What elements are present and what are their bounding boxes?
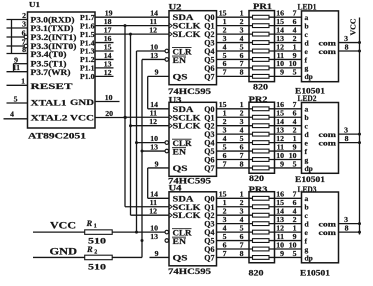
svg-text:QS: QS	[173, 164, 189, 173]
LED2 segment pin name e	[305, 138, 309, 147]
resistor PR3 element 4	[253, 222, 270, 226]
wire GND through R2 to EN bus	[33, 256, 142, 258]
svg-text:1: 1	[21, 77, 25, 86]
resistor PR1 element 2	[253, 24, 270, 28]
svg-text:17: 17	[104, 25, 112, 34]
svg-text:9: 9	[155, 68, 159, 77]
LED3 pin number 7	[293, 190, 297, 199]
LED1 segment pin name c	[305, 30, 309, 39]
svg-text:8: 8	[240, 68, 244, 77]
U1 pin name P3.1(TXD)	[31, 23, 74, 33]
resistor PR1 element 6	[253, 58, 270, 62]
display LED2 part number label E10501	[295, 175, 325, 184]
LED2 segment pin name dp	[305, 164, 313, 173]
svg-text:8: 8	[345, 223, 349, 232]
wire U3 QS to U4 SDA	[148, 168, 169, 198]
PR1 left pin number 7	[240, 59, 244, 68]
svg-text:12: 12	[104, 68, 112, 77]
IC U4 part number label 74HC595	[168, 266, 211, 276]
svg-text:820: 820	[253, 81, 268, 91]
wire SLCK bus elbow into U4	[131, 214, 170, 216]
IC U2 part number label 74HC595	[168, 86, 211, 96]
wire U3 Q7 to PR2 to LED2	[217, 167, 302, 169]
resistor network PR2 value label 820	[249, 173, 264, 183]
svg-text:U4: U4	[169, 183, 182, 192]
U2 pin SCLK name with clock wedge	[169, 22, 201, 31]
display LED3 part number label E10501	[300, 268, 330, 277]
PR3 right pin number 9	[280, 249, 284, 258]
svg-text:8: 8	[240, 159, 244, 168]
LED3 segment pin name dp	[305, 253, 313, 262]
U3 output Q7 name	[204, 164, 214, 173]
U1 pin name P3.2(INT1)	[31, 32, 77, 42]
U2 output Q7 name	[204, 72, 214, 81]
wire U2 QS stub to chain	[148, 75, 169, 77]
PR3 left pin number 8	[240, 249, 244, 258]
U3 pin SCLK name with clock wedge	[169, 113, 201, 122]
svg-text:10: 10	[105, 93, 113, 102]
U2 Q1 pin number 1	[223, 17, 227, 26]
U1 pin 10 GND stub wire	[95, 93, 120, 102]
U1 pin name P1.0	[80, 72, 95, 81]
LED1 segment pin name dp	[305, 72, 313, 81]
resistor PR2 element 1	[253, 107, 270, 111]
U1 pin 14 stub wire P1.2	[95, 51, 114, 60]
wire EN bus vertical	[141, 59, 143, 257]
wire SCLK bus vertical	[124, 26, 126, 207]
node junction VCC pin20	[124, 116, 127, 119]
resistor R1 designator label	[86, 218, 97, 230]
LED2 pin number 5	[293, 159, 297, 168]
svg-text:U3: U3	[169, 96, 182, 105]
U1 pin 7 wire and number	[7, 38, 28, 48]
PR1 right pin number 9	[280, 68, 284, 77]
PR2 left pin number 5	[240, 134, 244, 143]
LED1 com pin name lower	[319, 47, 337, 56]
node junction P1.6 SCLK bus	[124, 24, 127, 27]
LED3 pin number 4	[293, 207, 297, 216]
U2 Q4 pin number 4	[223, 42, 227, 51]
PR2 left pin number 1	[240, 100, 244, 109]
LED3 segment pin name d	[305, 219, 310, 228]
power VCC rail label rotated	[350, 19, 358, 36]
svg-text:com: com	[319, 228, 337, 237]
U3 pin SDA name	[173, 105, 194, 114]
resistor PR2 element 5	[253, 141, 270, 145]
svg-text:PR1: PR1	[253, 2, 272, 11]
LED3 pin number 9	[293, 232, 297, 241]
svg-text:VCC: VCC	[350, 19, 358, 36]
PR3 right pin number 12	[276, 223, 284, 232]
PR1 left pin number 8	[240, 68, 244, 77]
svg-text:P3.7(WR): P3.7(WR)	[31, 67, 71, 77]
U1 pin name XTAL2	[31, 113, 68, 123]
PR3 left pin number 7	[240, 240, 244, 249]
display LED1 designator label	[298, 2, 317, 11]
U1 pin 13 stub wire P1.1	[95, 59, 114, 68]
svg-text:5: 5	[293, 68, 297, 77]
wire U2 Q3 to PR1 to LED1	[217, 42, 302, 44]
U4 Q7 pin number 7	[223, 249, 227, 258]
svg-text:1: 1	[94, 224, 97, 230]
LED1 pin number 10	[289, 59, 297, 68]
resistor PR1 element 8	[253, 74, 270, 78]
U2 pin number 11	[150, 17, 157, 26]
wire U3 Q6 to PR2 to LED2	[217, 159, 302, 161]
svg-text:R: R	[86, 244, 93, 254]
wire U4 Q7 to PR3 to LED3	[217, 256, 302, 258]
PR2 left pin number 6	[240, 142, 244, 151]
U3 pin number 10	[150, 134, 158, 143]
wire U4 Q0 to PR3 to LED3	[217, 197, 302, 199]
U4 output Q6 name	[204, 245, 214, 254]
U1 pin 18 wire P1.6 to U2 SCLK	[95, 17, 169, 26]
U1 pin 6 wire and number	[7, 29, 28, 39]
U1 pin name P1.3	[80, 47, 95, 56]
svg-text:4: 4	[10, 110, 14, 119]
wire U2 Q2 to PR1 to LED1	[217, 33, 302, 35]
U3 Q1 pin number 1	[223, 109, 227, 118]
wire U3 Q0 to PR2 to LED2	[217, 108, 302, 110]
U4 Q1 pin number 1	[223, 198, 227, 207]
wire vertical rail joining U1 pins 2,3,6,7,8	[11, 20, 13, 54]
U1 pin 1 wire and number	[7, 77, 28, 86]
U2 pin SDA name	[173, 13, 194, 22]
U1 pin name P3.4(T0)	[31, 49, 67, 59]
resistor PR3 element 8	[253, 256, 270, 260]
U1 pin name P1.6	[80, 21, 95, 30]
wire LED3 com pin 3 to VCC rail	[339, 215, 362, 225]
LED2 segment pin name b	[305, 113, 309, 122]
U4 pin number 9	[155, 249, 159, 258]
U3 pin number 11	[150, 109, 157, 118]
U3 output Q2 name	[204, 122, 214, 131]
U3 pin QS name	[173, 164, 189, 173]
U3 output Q6 name	[204, 156, 214, 165]
LED3 segment pin name c	[305, 211, 309, 220]
wire U4 Q4 to PR3 to LED3	[217, 231, 302, 233]
svg-text:E10501: E10501	[300, 268, 330, 277]
U2 Q2 pin number 2	[223, 25, 227, 34]
svg-text:8: 8	[345, 134, 349, 143]
svg-text:R: R	[86, 218, 93, 228]
U1 pin 2 wire and number	[7, 11, 28, 20]
U3 output Q1 name	[204, 113, 214, 122]
U3 Q3 pin number 3	[223, 125, 227, 134]
PR1 right pin number 10	[276, 59, 284, 68]
IC U2 74HC595 body	[169, 11, 217, 85]
U1 pin 16 stub wire P1.4	[95, 34, 114, 43]
LED1 pin number 6	[293, 17, 297, 26]
wire U2 Q0 to PR1 to LED1	[217, 16, 302, 18]
U2 pin 13 EN input bubble	[165, 58, 169, 62]
power VCC rail vertical	[359, 18, 361, 235]
U2 pin CLR name with overline	[172, 47, 192, 56]
svg-text:820: 820	[249, 173, 264, 183]
resistor PR1 element 4	[253, 41, 270, 45]
svg-text:LED1: LED1	[298, 2, 317, 11]
U4 Q2 pin number 2	[223, 207, 227, 216]
wire U2 Q1 to PR1 to LED1	[217, 25, 302, 27]
svg-text:E10501: E10501	[295, 175, 325, 184]
U1 pin name P1.1	[80, 64, 95, 73]
PR3 right pin number 16	[276, 190, 284, 199]
PR1 right pin number 12	[276, 42, 284, 51]
PR2 right pin number 12	[276, 134, 284, 143]
wire U2 Q4 to PR1 to LED1	[217, 50, 302, 52]
PR2 right pin number 13	[276, 125, 284, 134]
U1 pin name P1.4	[80, 38, 95, 47]
U3 output Q0 name	[204, 105, 214, 114]
svg-text:SLCK: SLCK	[173, 211, 202, 220]
PR2 right pin number 10	[276, 151, 284, 160]
U1 pin 12 stub wire P1.0	[95, 68, 114, 77]
U1 pin 20 VCC wire	[95, 109, 126, 118]
U3 pin number 9	[155, 159, 159, 168]
svg-text:VCC: VCC	[50, 221, 76, 231]
U1 pin 15 stub wire P1.3	[95, 42, 114, 51]
U4 output Q3 name	[204, 220, 214, 229]
PR3 left pin number 3	[240, 207, 244, 216]
svg-text:5: 5	[293, 159, 297, 168]
U1 pin name P1.2	[80, 55, 95, 64]
U4 pin number 14	[150, 190, 158, 199]
U3 pin EN name with overline	[172, 147, 186, 156]
wire LED2 com pin 8 to VCC rail	[339, 134, 362, 144]
node junction EN bus to U4 pin 13	[141, 239, 144, 242]
resistor PR3 element 5	[253, 230, 270, 234]
resistor PR2 element 7	[253, 158, 270, 162]
LED3 com pin name upper	[319, 219, 337, 228]
U2 Q3 pin number 3	[223, 34, 227, 43]
PR3 right pin number 14	[276, 207, 284, 216]
IC U3 74HC595 body	[169, 102, 217, 176]
U1 pin name XTAL1	[31, 98, 67, 108]
LED3 com pin name lower	[319, 228, 337, 237]
U1 pin 4 wire and number	[4, 110, 28, 119]
resistor network PR2 designator label	[249, 95, 268, 104]
U3 Q2 pin number 2	[223, 117, 227, 126]
svg-text:GND: GND	[70, 97, 94, 107]
U3 Q7 pin number 7	[223, 159, 227, 168]
svg-text:com: com	[319, 138, 337, 147]
PR2 left pin number 7	[240, 151, 244, 160]
svg-text:EN: EN	[173, 56, 187, 65]
LED2 segment pin name f	[305, 147, 308, 156]
U2 pin EN name with overline	[172, 56, 186, 65]
svg-text:QS: QS	[173, 72, 189, 81]
resistor R1 value label 510	[88, 236, 106, 246]
IC U4 74HC595 body	[169, 192, 217, 266]
resistor PR3 element 2	[253, 205, 270, 209]
U1 pin 17 wire P1.5 to U2 SLCK	[95, 25, 169, 34]
svg-text:9: 9	[280, 159, 284, 168]
LED3 segment pin name b	[305, 203, 309, 212]
resistor PR2 element 4	[253, 132, 270, 136]
wire U3 QS stub to chain	[148, 167, 169, 169]
svg-text:13: 13	[150, 51, 158, 60]
wire U4 Q6 to PR3 to LED3	[217, 248, 302, 250]
U3 Q4 pin number 4	[223, 134, 227, 143]
wire LED3 com pin 8 to VCC rail	[339, 223, 362, 233]
IC U3 part number label 74HC595	[168, 175, 211, 185]
U3 Q5 pin number 5	[223, 142, 227, 151]
op U1 designator label	[29, 0, 40, 9]
wire vertical joining U1 pins 9 and 11	[13, 64, 15, 72]
LED2 pin number 1	[293, 134, 297, 143]
resistor PR3 element 1	[253, 196, 270, 200]
wire LED2 com pin 3 to VCC rail	[339, 125, 362, 135]
LED1 pin number 9	[293, 51, 297, 60]
IC U4 designator label	[169, 183, 182, 192]
U4 pin EN name with overline	[172, 237, 186, 246]
U1 pin name P3.7(WR)	[31, 67, 71, 77]
LED2 pin number 7	[293, 100, 297, 109]
wire SCLK branch to U3	[124, 116, 170, 119]
LED2 pin number 6	[293, 109, 297, 118]
wire U2 EN from bus	[142, 58, 165, 60]
U2 output Q3 name	[204, 39, 214, 48]
LED1 segment pin name b	[305, 21, 309, 30]
LED1 segment pin name e	[305, 47, 309, 56]
wire U4 QS open stub	[150, 256, 170, 258]
PR3 right pin number 13	[276, 215, 284, 224]
display LED3 designator label	[298, 185, 317, 194]
LED2 pin number 2	[293, 125, 297, 134]
svg-text:dp: dp	[305, 253, 313, 262]
U2 pin 10 CLR input bubble	[165, 49, 169, 53]
resistor PR1 element 7	[253, 66, 270, 70]
svg-text:2: 2	[94, 250, 97, 256]
PR2 right pin number 15	[276, 109, 284, 118]
U2 pin number 9	[155, 68, 159, 77]
svg-text:8: 8	[345, 42, 349, 51]
resistor PR2 element 8	[253, 166, 270, 170]
svg-text:Q7: Q7	[204, 72, 214, 81]
svg-text:12: 12	[149, 207, 157, 216]
U1 pin 3 wire and number	[7, 20, 28, 29]
wire U2 Q7 to PR1 to LED1	[217, 75, 302, 77]
PR3 left pin number 5	[240, 223, 244, 232]
PR2 left pin number 8	[240, 159, 244, 168]
svg-text:7: 7	[223, 249, 227, 258]
U3 Q0 pin number 15	[219, 100, 227, 109]
power GND label at R2	[50, 247, 78, 257]
LED1 segment pin name g	[305, 64, 309, 73]
U1 pin name P3.5(T1)	[31, 59, 67, 69]
U2 pin number 14	[150, 9, 158, 18]
U2 output Q4 name	[204, 47, 214, 56]
svg-text:9: 9	[155, 249, 159, 258]
wire U3 Q5 to PR2 to LED2	[217, 150, 302, 152]
U2 output Q6 name	[204, 64, 214, 73]
resistor PR3 element 7	[253, 247, 270, 251]
U4 output Q0 name	[204, 194, 214, 203]
U2 output Q0 name	[204, 13, 214, 22]
U4 pin number 10	[150, 223, 158, 232]
U1 pin 11 wire and number	[7, 63, 28, 72]
U1 pin name VCC	[70, 113, 94, 123]
svg-text:RESET: RESET	[31, 81, 73, 91]
svg-text:8: 8	[22, 45, 26, 54]
U3 pin number 14	[150, 100, 158, 109]
U1 pin name P1.7	[80, 13, 95, 22]
PR1 right pin number 13	[276, 34, 284, 43]
wire U2 QS to U3 SDA	[148, 76, 169, 108]
LED2 segment pin name a	[305, 105, 309, 114]
U1 pin name P1.5	[80, 30, 95, 39]
U4 Q5 pin number 5	[223, 232, 227, 241]
U1 pin name P3.0(RXD)	[31, 14, 75, 24]
resistor network PR3 value label 820	[249, 267, 264, 277]
U4 output Q2 name	[204, 211, 214, 220]
svg-text:SLCK: SLCK	[173, 122, 202, 131]
resistor network PR3 designator label	[249, 185, 268, 194]
wire U3 Q1 to PR2 to LED2	[217, 116, 302, 118]
IC U3 designator label	[169, 96, 182, 105]
U1 pin name P3.3(INT0)	[31, 41, 77, 51]
svg-text:XTAL1: XTAL1	[31, 98, 67, 108]
U3 output Q5 name	[204, 147, 214, 156]
svg-text:9: 9	[280, 68, 284, 77]
svg-text:9: 9	[280, 249, 284, 258]
U2 pin number 12	[149, 25, 157, 34]
LED1 com pin name upper	[319, 38, 337, 47]
svg-text:dp: dp	[305, 164, 313, 173]
svg-text:QS: QS	[173, 253, 189, 262]
display LED2 E10501 body	[302, 103, 339, 174]
svg-text:com: com	[319, 47, 337, 56]
wire U4 Q2 to PR3 to LED3	[217, 214, 302, 216]
wire EN branch to U3	[141, 150, 166, 153]
resistor network PR1 value label 820	[253, 81, 268, 91]
LED2 com pin name lower	[319, 138, 337, 147]
U2 Q0 pin number 15	[219, 9, 227, 18]
LED1 pin number 1	[293, 42, 297, 51]
svg-text:12: 12	[149, 117, 157, 126]
U4 pin 13 EN input bubble	[165, 239, 169, 243]
resistor network PR2 body	[249, 102, 275, 173]
LED1 segment pin name a	[305, 13, 309, 22]
svg-text:XTAL2: XTAL2	[31, 113, 68, 123]
LED2 com pin name upper	[319, 130, 337, 139]
U2 Q5 pin number 5	[223, 51, 227, 60]
svg-text:Q7: Q7	[204, 164, 214, 173]
PR2 left pin number 2	[240, 109, 244, 118]
wire U3 Q2 to PR2 to LED2	[217, 125, 302, 127]
wire SCLK bus elbow into U4	[125, 206, 169, 208]
wire LED1 com pin 3 to VCC rail	[339, 34, 362, 44]
svg-text:7: 7	[223, 68, 227, 77]
U2 pin number 10	[150, 42, 158, 51]
wire U4 Q5 to PR3 to LED3	[217, 240, 302, 242]
U4 pin 10 CLR input bubble	[165, 230, 169, 234]
PR3 left pin number 1	[240, 190, 244, 199]
PR1 right pin number 14	[276, 25, 284, 34]
wire U4 Q1 to PR3 to LED3	[217, 206, 302, 208]
resistor PR3 element 6	[253, 239, 270, 243]
PR3 right pin number 10	[276, 240, 284, 249]
U4 Q3 pin number 3	[223, 215, 227, 224]
LED3 pin number 10	[289, 240, 297, 249]
U4 Q6 pin number 6	[223, 240, 227, 249]
node junction R1 to CLR bus	[135, 231, 138, 234]
resistor network PR3 body	[249, 192, 275, 263]
U2 output Q2 name	[204, 30, 214, 39]
LED3 segment pin name e	[305, 228, 309, 237]
PR1 left pin number 3	[240, 25, 244, 34]
wire U4 Q3 to PR3 to LED3	[217, 223, 302, 225]
